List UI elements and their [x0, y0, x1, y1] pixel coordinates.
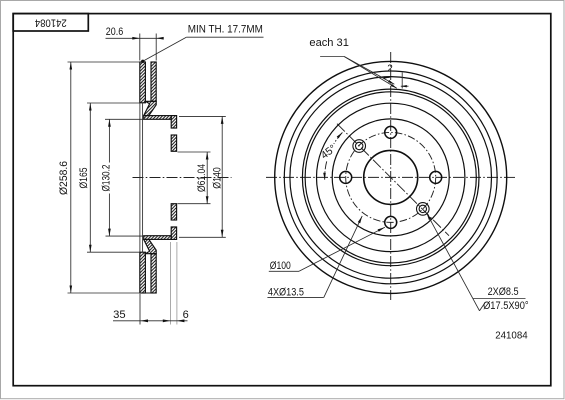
section: right friction plate (top half)	[151, 62, 156, 101]
dimension D61.04	[178, 151, 211, 153]
svg-text:Ø61.04: Ø61.04	[196, 164, 208, 192]
svg-text:6: 6	[183, 309, 189, 321]
dimension D258.6	[68, 61, 140, 63]
circle	[290, 77, 492, 279]
svg-text:Ø165: Ø165	[78, 168, 90, 189]
front view 45deg diagonal centerline	[337, 124, 449, 236]
svg-text:241084: 241084	[495, 331, 528, 342]
outer circle D258.6	[275, 61, 507, 293]
section: left friction plate (bottom half)	[140, 252, 146, 293]
section: hat cone (bottom half)	[144, 239, 157, 253]
circle (vent inner a)	[302, 89, 479, 266]
section: disc bottom edge closing line	[140, 292, 156, 294]
circle (vent outer)	[284, 71, 497, 284]
section: inner visible edges through hat window	[139, 103, 141, 252]
dimension D140	[179, 115, 226, 117]
label 2XD8.5 / D17.5X90 with leader and countersink symbol	[427, 213, 480, 311]
svg-text:2: 2	[387, 63, 393, 74]
svg-text:241084: 241084	[35, 16, 67, 28]
title block box	[13, 14, 88, 31]
svg-text:Ø100: Ø100	[270, 260, 291, 272]
45 degree angular dimension arc	[334, 132, 343, 144]
circle D165	[317, 103, 465, 251]
svg-text:35: 35	[113, 309, 126, 321]
svg-text:4XØ13.5: 4XØ13.5	[268, 286, 304, 298]
countersunk hole D8.5/D17.5	[356, 142, 363, 149]
circle (vent inner b)	[305, 92, 476, 263]
center hole D61.04	[364, 150, 418, 204]
svg-text:each 31: each 31	[309, 37, 349, 49]
section: hat cone (top half)	[144, 101, 157, 115]
circle D130.2	[332, 119, 449, 236]
svg-text:Ø130.2: Ø130.2	[101, 165, 113, 192]
dimension D165	[87, 102, 140, 104]
front view vertical centerline	[390, 52, 392, 300]
bolt circle D100 (dash-dot)	[346, 132, 436, 222]
svg-text:MIN TH. 17.7MM: MIN TH. 17.7MM	[188, 24, 263, 36]
bolt hole D13.5	[385, 216, 397, 228]
svg-text:Ø258.6: Ø258.6	[58, 161, 70, 195]
section: right friction plate (bottom half)	[151, 254, 156, 293]
countersunk hole D8.5/D17.5	[419, 205, 426, 212]
section: mounting flange (bottom half, with bolt hole slot)	[171, 227, 176, 239]
svg-text:Ø140: Ø140	[212, 167, 224, 189]
bolt hole D13.5	[385, 126, 397, 138]
section centerline	[133, 177, 232, 179]
svg-text:2XØ8.5: 2XØ8.5	[488, 286, 519, 298]
section: left friction plate (top half)	[140, 62, 146, 103]
svg-text:20.6: 20.6	[106, 26, 123, 38]
bolt hole D13.5	[430, 171, 442, 183]
front view horizontal centerline	[266, 176, 516, 178]
dimensions 35 and 6 (bottom)	[139, 294, 141, 325]
section: hat barrel wall (top half)	[144, 116, 172, 120]
section: hat barrel wall (bottom half)	[144, 236, 172, 240]
dimension 20.6 (disc thickness)	[139, 34, 141, 61]
section: mounting flange (top half, with bolt hole slot)	[171, 116, 176, 128]
dimension D130.2	[105, 118, 146, 120]
bolt hole D13.5	[340, 171, 352, 183]
svg-text:Ø17.5X90°: Ø17.5X90°	[483, 300, 528, 312]
